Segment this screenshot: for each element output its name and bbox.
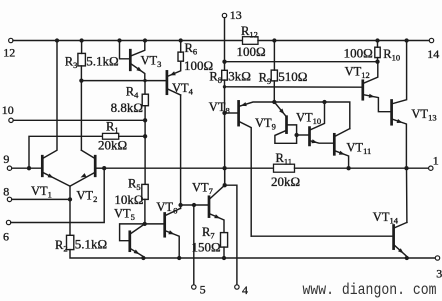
label R3 xyxy=(65,55,78,71)
label VT1 xyxy=(31,184,52,200)
wire R8 bottom column (to VT7 collector node) xyxy=(224,80,226,185)
label R10 xyxy=(383,47,400,63)
junction R10 bottom / VT12 collector xyxy=(375,60,379,64)
label VT10 xyxy=(296,111,321,127)
svg-text:5: 5 xyxy=(200,283,206,297)
svg-text:10kΩ: 10kΩ xyxy=(114,192,143,207)
node junction VT13 collector at rail xyxy=(404,38,408,42)
wire VT6 base lead xyxy=(145,223,165,225)
label R11 xyxy=(276,151,293,167)
label R1 xyxy=(106,119,119,135)
label VT5 xyxy=(114,207,135,223)
wire pin 8 line xyxy=(12,198,70,200)
label VT12 xyxy=(345,65,370,81)
transistor VT6 xyxy=(165,208,181,258)
resistor R7 xyxy=(221,233,228,248)
label R7 xyxy=(202,225,215,241)
junction VT5/VT6 base node xyxy=(143,222,147,226)
transistor VT3 xyxy=(120,41,145,81)
svg-text:5.1kΩ: 5.1kΩ xyxy=(86,54,118,69)
wire R5 bottom lead xyxy=(144,199,146,224)
wire pin 13 drop xyxy=(224,18,226,62)
junction R1 hook at pin 9 line xyxy=(27,166,31,170)
wire VT3 emitter to R4 xyxy=(144,81,146,95)
pin 6 terminal xyxy=(6,220,10,224)
node junction R6 top at rail xyxy=(179,38,183,42)
svg-text:4: 4 xyxy=(242,283,248,297)
svg-text:1: 1 xyxy=(433,154,439,168)
label R5 xyxy=(128,177,141,193)
resistor R3 xyxy=(78,53,86,66)
wire VT14 base line (from VT8 collector) xyxy=(251,235,393,237)
wire pin 6 to VT2 base xyxy=(11,168,104,222)
junction pin 10 line xyxy=(143,118,147,122)
label VT7 xyxy=(192,181,213,197)
value label 20kΩ (R1) xyxy=(98,138,127,153)
junction pin 8 xyxy=(68,197,72,201)
label VT14 xyxy=(373,210,399,226)
value label 150Ω (R7) xyxy=(192,240,221,255)
junction VT7 collector node xyxy=(223,183,227,187)
wire VT4/VT6 collector column xyxy=(180,95,182,208)
value label 5.1kΩ (R2) xyxy=(75,237,107,252)
pin label 14 xyxy=(427,47,439,61)
junction VT3 emitter / VT4 base line xyxy=(143,79,146,82)
svg-text:5.1kΩ: 5.1kΩ xyxy=(75,237,107,252)
watermark www.diangon.com xyxy=(303,281,437,299)
pin label 9 xyxy=(3,152,9,166)
pin 14 terminal xyxy=(429,38,433,42)
node junction VT3 collector at rail xyxy=(143,38,147,42)
value label 100Ω (R12) xyxy=(237,44,266,59)
wire VT10 base lead xyxy=(297,134,310,136)
svg-text:20kΩ: 20kΩ xyxy=(98,138,127,153)
node junction after R12 xyxy=(272,38,276,42)
wire VT4 base line xyxy=(81,80,166,82)
wire VT7 collector to pin 4 xyxy=(225,185,237,285)
pin 9 terminal xyxy=(7,166,11,170)
wire common emitters down to R2 xyxy=(69,186,71,235)
value label 10kΩ (R5) xyxy=(114,192,143,207)
junction VT14 emitter at bottom rail xyxy=(405,256,409,260)
pin 10 terminal xyxy=(9,118,13,122)
wire pin 5 riser xyxy=(193,205,195,285)
transistor VT11 xyxy=(334,129,350,169)
value label 510Ω (R9) xyxy=(278,69,307,84)
wire R10 bottom lead xyxy=(377,58,379,62)
label R4 xyxy=(126,84,139,100)
wire bottom rail xyxy=(70,250,435,258)
junction R3 bottom / VT4 base line xyxy=(79,78,83,82)
junction R1 right end xyxy=(143,134,147,138)
pin label 6 xyxy=(3,229,9,243)
transistor VT8 xyxy=(225,101,275,236)
wire feedback line right (R11 to pin 1) xyxy=(295,167,429,169)
resistor R5 xyxy=(142,184,148,199)
svg-text:510Ω: 510Ω xyxy=(278,69,307,84)
value label 3kΩ (R8) xyxy=(228,69,251,84)
wire R10 top lead xyxy=(377,41,379,48)
wire feedback line left (to R11) xyxy=(104,167,273,169)
label R9 xyxy=(259,71,272,87)
label R8 xyxy=(209,70,222,86)
resistor R6 xyxy=(178,52,183,61)
svg-text:13: 13 xyxy=(230,8,242,22)
transistor VT12 xyxy=(363,62,392,112)
svg-text:10: 10 xyxy=(2,103,14,117)
node junction R10 top at rail xyxy=(375,38,379,42)
pin 13 terminal xyxy=(222,13,226,17)
junction Vref line branch xyxy=(223,85,226,88)
junction VT10 collector at mirror rail xyxy=(322,100,326,104)
pin label 8 xyxy=(3,185,9,199)
label VT8 xyxy=(209,100,230,116)
junction VT11 emitter on feedback line xyxy=(346,166,350,170)
pin label 4 xyxy=(242,283,248,297)
wire +rail left (pin 12 to R12) xyxy=(13,40,243,42)
pin label 3 xyxy=(436,266,442,280)
junction VT7 collector branch on feedback line xyxy=(222,166,226,170)
transistor VT5 xyxy=(120,224,145,257)
resistor R9 xyxy=(271,70,277,81)
label R6 xyxy=(185,41,198,57)
wire R9 bottom lead xyxy=(273,81,275,102)
pin 3 terminal xyxy=(435,256,439,260)
resistor R8 xyxy=(222,70,228,80)
value label 100Ω (R10) xyxy=(344,46,373,61)
pin 4 terminal xyxy=(235,285,239,289)
wire Vref line (R8 to VT12 base) xyxy=(225,86,363,88)
wire R3 bottom to VT2 collector xyxy=(80,66,82,150)
label VT11 xyxy=(346,141,371,157)
wire mirror rail xyxy=(274,102,350,129)
junction R7 at bottom rail xyxy=(222,256,226,260)
svg-text:www. diangon. com: www. diangon. com xyxy=(303,281,437,299)
wire VT14 collector column xyxy=(406,168,408,222)
resistor R4 xyxy=(142,94,148,106)
wire R4 bottom to R5 top xyxy=(144,106,146,185)
value label 8.8kΩ (R4) xyxy=(111,100,143,115)
pin 1 terminal xyxy=(429,166,433,170)
pin 8 terminal xyxy=(7,197,11,201)
svg-text:14: 14 xyxy=(427,47,439,61)
transistor VT7 xyxy=(209,185,225,232)
transistor VT1 xyxy=(42,41,70,187)
svg-text:6: 6 xyxy=(3,229,9,243)
transistor VT9 xyxy=(274,102,296,143)
pin 5 terminal xyxy=(192,285,196,289)
label VT6 xyxy=(156,200,177,216)
resistor R1 xyxy=(103,133,119,139)
svg-text:3: 3 xyxy=(436,266,442,280)
resistor R10 xyxy=(375,47,380,57)
svg-text:8.8kΩ: 8.8kΩ xyxy=(111,100,143,115)
junction VT8 base branch xyxy=(222,111,226,115)
resistor R11 xyxy=(274,164,295,172)
svg-text:9: 9 xyxy=(3,152,9,166)
label VT4 xyxy=(172,81,194,97)
pin label 12 xyxy=(3,46,15,60)
pin label 5 xyxy=(200,283,206,297)
transistor VT13 xyxy=(392,41,407,169)
label VT13 xyxy=(411,107,436,123)
svg-text:20kΩ: 20kΩ xyxy=(271,174,300,189)
junction pin13/R8/bus xyxy=(222,60,226,64)
junction VT2 base / pin 6 / feedback line xyxy=(102,166,106,170)
label VT9 xyxy=(255,116,276,132)
wire R1 left hook xyxy=(29,136,103,168)
wire R3 top lead xyxy=(81,41,83,54)
wire VT7 base line xyxy=(181,204,209,206)
label VT2 xyxy=(76,189,97,205)
junction VT9/VT10 base tie xyxy=(294,133,298,137)
value label 5.1kΩ (R3) xyxy=(86,54,118,69)
node junction R3 top at rail xyxy=(79,38,83,42)
junction VT5 emitter at bottom rail xyxy=(141,256,145,260)
transistor VT2 xyxy=(70,150,95,186)
pin label 10 xyxy=(2,103,14,117)
wire bias bus (pin13 to R10 bottom) xyxy=(225,61,378,63)
junction pin 5 at VT7 base xyxy=(192,203,196,207)
resistor R12 xyxy=(243,37,259,45)
wire pin 9 to VT1 base xyxy=(12,167,43,169)
node junction VT3 base at rail xyxy=(117,38,121,42)
wire VT2 base lead xyxy=(95,167,104,169)
junction VT6 emitter at bottom rail xyxy=(177,256,181,260)
svg-text:12: 12 xyxy=(3,46,15,60)
pin label 1 xyxy=(433,154,439,168)
junction mirror rail left xyxy=(272,100,276,104)
svg-text:100Ω: 100Ω xyxy=(237,44,266,59)
wire +rail right (R12 to pin 14) xyxy=(258,40,429,42)
transistor VT10 xyxy=(310,102,335,145)
pin 12 terminal xyxy=(9,38,13,42)
resistor R2 xyxy=(67,235,74,249)
pin label 13 xyxy=(230,8,242,22)
svg-text:100Ω: 100Ω xyxy=(344,46,373,61)
svg-text:8: 8 xyxy=(3,185,9,199)
label R2 xyxy=(55,238,68,254)
wire R8 top lead xyxy=(224,62,226,71)
svg-text:150Ω: 150Ω xyxy=(192,240,221,255)
label VT3 xyxy=(141,54,162,70)
svg-text:3kΩ: 3kΩ xyxy=(228,69,251,84)
junction VT7 base tee xyxy=(178,203,182,207)
label R12 xyxy=(241,24,258,40)
wire VT7 collector to feedback line xyxy=(224,168,226,185)
wire R9 top lead xyxy=(273,41,275,71)
value label 20kΩ (R11) xyxy=(271,174,300,189)
value label 100Ω (R6) xyxy=(184,58,213,73)
wire R6 top lead xyxy=(180,41,182,53)
transistor VT4 xyxy=(167,61,181,95)
wire R1 right lead xyxy=(119,135,145,137)
node A junction (VT1 collector at rail) xyxy=(55,38,59,42)
wire R7 bottom lead xyxy=(223,247,225,258)
wire pin 10 line xyxy=(13,119,145,121)
transistor VT14 xyxy=(394,222,407,258)
junction VT13 emitter / VT14 collector on feedback line xyxy=(404,166,408,170)
